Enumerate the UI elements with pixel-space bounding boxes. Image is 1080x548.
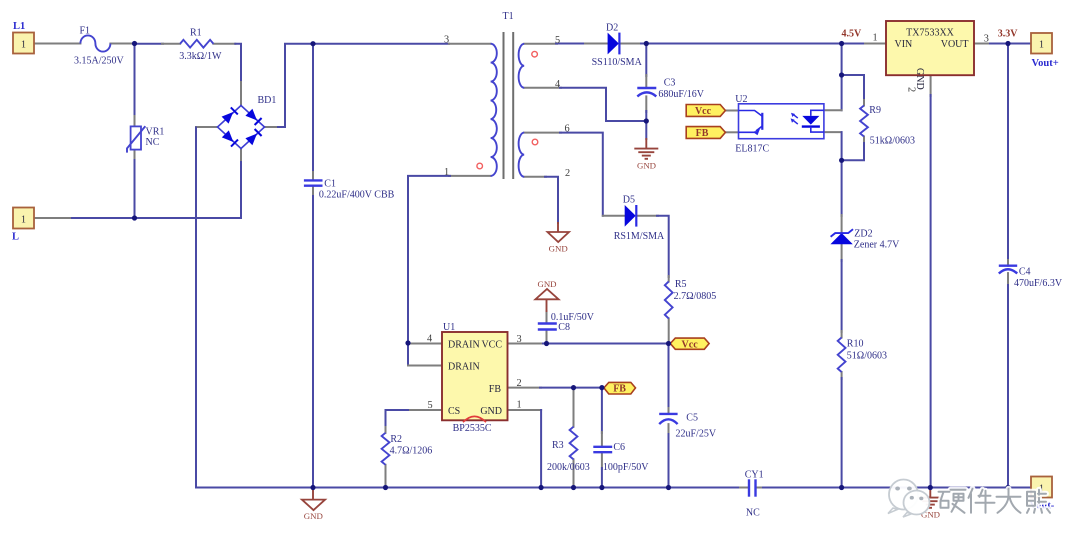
pin: C8 bottom lead	[546, 331, 548, 344]
zener diode ZD2	[830, 229, 853, 244]
diode D5 RS1M/SMA	[625, 205, 637, 227]
svg-text:Zener 4.7V: Zener 4.7V	[854, 240, 900, 251]
svg-text:L: L	[12, 232, 19, 243]
pin: R9 top lead	[863, 100, 865, 106]
pin: R10 bottom lead	[841, 372, 843, 379]
svg-text:680uF/16V: 680uF/16V	[658, 89, 704, 100]
transformer secondary winding (pins 6-2)	[519, 133, 525, 177]
watermark: WeChat logo bubbles	[888, 480, 930, 518]
svg-text:Vcc: Vcc	[695, 106, 712, 117]
diode D2 SS110/SMA	[608, 33, 620, 55]
pin: U2 emitter lead to FB flag	[726, 131, 739, 133]
svg-text:GND: GND	[637, 160, 656, 170]
junction: R2 on rail	[383, 485, 388, 490]
svg-text:R9: R9	[869, 105, 881, 116]
junction: C1 tap on DC+ rail	[310, 41, 315, 46]
wire: R10 to ground rail	[841, 378, 843, 488]
svg-text:1: 1	[873, 33, 878, 44]
wire: C3 bottom to secondary ground node	[645, 111, 647, 121]
svg-text:1: 1	[444, 167, 449, 178]
watermark: character xiong (bear)	[1027, 490, 1050, 513]
svg-text:3.3kΩ/1W: 3.3kΩ/1W	[179, 51, 222, 62]
pin: C3 bottom lead	[645, 96, 647, 112]
transformer core lines	[503, 32, 505, 179]
junction: C8 tap on VCC wire	[544, 341, 549, 346]
pin: D2 cathode lead	[619, 43, 642, 45]
polarity dot secondary top	[532, 51, 538, 57]
svg-text:R10: R10	[847, 339, 864, 350]
junction: Vcc flag node	[666, 341, 671, 346]
svg-text:2: 2	[565, 168, 570, 179]
svg-text:200k/0603: 200k/0603	[547, 462, 590, 473]
pin: TX7533XX VIN pin 1 lead	[865, 43, 886, 45]
wire: C5 to ground rail	[668, 434, 670, 488]
svg-text:D5: D5	[623, 194, 635, 205]
junction: GND symbol tap on rail	[310, 485, 315, 490]
pin: transformer pin 6 lead	[524, 132, 561, 134]
junction: F1/R1/VR1 node	[132, 41, 137, 46]
svg-text:0.22uF/400V CBB: 0.22uF/400V CBB	[319, 189, 395, 200]
wire: fuse F1 to junction A	[110, 43, 131, 45]
wire: zener node down to ZD2	[841, 160, 843, 216]
svg-text:T1: T1	[503, 11, 514, 22]
svg-text:C5: C5	[686, 412, 698, 423]
pin: R2 bottom lead	[385, 465, 387, 488]
ground (GND power port at transformer pin 2)	[548, 232, 570, 254]
svg-text:Vcc: Vcc	[682, 339, 699, 350]
junction: R3 tap on FB wire	[571, 385, 576, 390]
junction: R3 on rail	[571, 485, 576, 490]
wire: U1 GND down to ground rail	[540, 410, 542, 488]
wire: DC+ rail down to capacitor C1	[312, 44, 314, 173]
wire: secondary ground rail to Vout- port	[763, 487, 1031, 489]
pin: VR1 top lead	[134, 116, 136, 126]
svg-text:CS: CS	[448, 406, 460, 417]
pin: transformer pin 3 lead	[449, 43, 491, 45]
svg-text:FB: FB	[613, 384, 626, 395]
voltage regulator U3 TX7533XX body	[886, 21, 974, 92]
junction: opto/R9 bottom node	[839, 158, 844, 163]
svg-text:U2: U2	[735, 94, 747, 105]
U2 coupling arrows	[793, 114, 798, 118]
junction: C4 on rail	[1005, 485, 1010, 490]
pin: transformer pin 1 lead	[449, 175, 491, 177]
svg-text:4: 4	[427, 334, 432, 345]
wire: R9 bottom to zener node	[842, 143, 864, 160]
junction: TX GND / earth on rail	[928, 485, 933, 490]
wire: GND power port lead at pin 2	[557, 222, 559, 232]
svg-text:C6: C6	[613, 442, 625, 453]
svg-text:2: 2	[906, 87, 917, 92]
watermark: character jian (piece)	[969, 489, 995, 513]
pin: U2 LED anode lead	[824, 109, 842, 111]
pin: R10 top lead	[841, 331, 843, 338]
pin: R3 top lead	[573, 389, 575, 427]
wire: junction A down to varistor VR1	[134, 44, 136, 117]
capacitor CY1	[749, 479, 756, 496]
wire: branch to resistor R9	[842, 75, 864, 101]
wire: junction A to resistor R1	[133, 43, 163, 45]
svg-text:EL817C: EL817C	[735, 144, 769, 155]
pin: C8 top lead	[546, 311, 548, 324]
wire: LED cathode down to zener node	[841, 132, 843, 161]
power flag Vcc at U1 pin 3	[670, 338, 709, 350]
junction: C3 tap on 4.5V wire	[644, 41, 649, 46]
svg-text:3: 3	[984, 34, 989, 45]
svg-text:6: 6	[565, 124, 570, 135]
svg-text:2.7Ω/0805: 2.7Ω/0805	[674, 291, 717, 302]
svg-text:R5: R5	[675, 279, 687, 290]
junction: 4.5V branch node	[839, 41, 844, 46]
ground (GND power port above C8, triangle up)	[535, 279, 558, 299]
pin: CY1 left lead	[740, 487, 749, 489]
transformer secondary winding (pins 5-4)	[519, 44, 525, 88]
wire: ZD2 down to resistor R10	[841, 260, 843, 332]
polarity dot secondary bottom	[532, 139, 538, 145]
junction: 3.3V / C4 node	[1005, 41, 1010, 46]
pin: ZD2 anode lead	[841, 244, 843, 261]
svg-text:GND: GND	[549, 244, 568, 254]
junction: transformer pin1 / U1 DRAIN node	[405, 340, 410, 345]
pin: U2 LED cathode lead	[824, 131, 841, 133]
svg-text:U1: U1	[443, 322, 455, 333]
wire: U1 FB to FB flag	[540, 387, 604, 389]
pin: U1 VCC pin 3 lead	[508, 343, 545, 345]
junction: opto/R9 top node	[839, 72, 844, 77]
bridge rectifier BD1	[218, 106, 265, 149]
svg-text:R2: R2	[390, 434, 402, 445]
svg-text:VIN: VIN	[895, 39, 913, 50]
wire: BD1 bottom to L neutral wire	[68, 162, 241, 218]
wire: BD1 left vertex down to ground rail	[195, 128, 197, 488]
pin: ZD2 cathode lead	[841, 215, 843, 233]
pin: transformer pin 5 lead	[524, 43, 557, 45]
svg-text:51kΩ/0603: 51kΩ/0603	[870, 136, 915, 147]
wire: GND power port lead above C8	[546, 299, 548, 312]
wire: pin 6 down to diode D5	[560, 133, 603, 216]
resistor R10	[838, 338, 846, 373]
junction: R10 on rail	[839, 485, 844, 490]
svg-text:22uF/25V: 22uF/25V	[676, 429, 717, 440]
pin: BD1 bottom lead	[240, 149, 242, 164]
svg-text:TX7533XX: TX7533XX	[906, 28, 955, 39]
wire: U1 VCC to Vcc flag junction	[543, 343, 670, 345]
capacitor C3 (polarized)	[637, 88, 656, 96]
pin: R9 bottom lead	[863, 137, 865, 145]
port L1	[13, 33, 34, 54]
wire: D2 cathode to TX7533XX VIN (4.5V net)	[641, 43, 866, 45]
svg-text:3: 3	[444, 35, 449, 46]
wire: VR1 bottom to L neutral wire	[134, 160, 136, 218]
junction: C3 bottom / pin4 ground node	[644, 118, 649, 123]
fuse F1	[80, 35, 110, 51]
wire: 3.3V net down to capacitor C4	[1007, 44, 1009, 262]
svg-text:F1: F1	[80, 25, 91, 36]
capacitor C1	[304, 180, 323, 185]
pin: R1 right lead	[213, 43, 235, 45]
capacitor C4 (polarized)	[999, 266, 1017, 274]
pin: BD1 left lead	[196, 126, 218, 128]
svg-text:VOUT: VOUT	[941, 39, 969, 50]
port L	[13, 208, 34, 229]
op-amp U1 BP2535C body	[442, 332, 508, 422]
wire: TX GND down to ground rail	[930, 95, 932, 488]
resistor R3	[570, 427, 578, 460]
svg-text:R3: R3	[552, 440, 564, 451]
pin: D2 anode lead (short)	[585, 43, 608, 45]
wire: R1 to BD1 top	[235, 44, 241, 83]
wire: BD1 right vertex up to DC+ top rail	[278, 44, 449, 127]
wire: Vcc node down to capacitor C5	[668, 344, 670, 410]
pin: C6 bottom lead	[601, 452, 603, 469]
svg-text:1: 1	[517, 400, 522, 411]
svg-text:1: 1	[21, 39, 26, 50]
pin: C5 bottom lead	[668, 424, 670, 435]
pin: R5 bottom lead	[668, 319, 670, 344]
power flag FB at U1 pin 2	[604, 382, 636, 394]
pin: CY1 right lead	[756, 487, 765, 489]
wire: C1 down to primary ground rail	[312, 196, 314, 488]
junction: VR1 bottom on L wire	[132, 215, 137, 220]
resistor R5	[665, 282, 673, 319]
transformer primary winding (pins 3-1)	[491, 44, 497, 176]
svg-text:1: 1	[21, 214, 26, 225]
optocoupler U2 EL817C	[739, 104, 824, 139]
svg-text:51Ω/0603: 51Ω/0603	[847, 350, 887, 361]
pin: R5 top lead	[668, 276, 670, 282]
svg-text:FB: FB	[489, 384, 502, 395]
svg-text:5: 5	[428, 400, 433, 411]
svg-text:GND: GND	[480, 406, 502, 417]
power flag Vcc at U2	[686, 105, 725, 118]
wire: L1 port to fuse F1	[34, 43, 80, 45]
pin: C4 top lead	[1007, 260, 1009, 266]
watermark: character ying (hard)	[939, 490, 966, 513]
svg-text:3.3V: 3.3V	[998, 28, 1019, 39]
varistor VR1	[127, 126, 145, 152]
junction: C5 on rail	[666, 485, 671, 490]
wire: 4.5V net down to capacitor C3	[645, 44, 647, 77]
junction: C6 / FB flag node	[599, 385, 604, 390]
svg-text:RS1M/SMA: RS1M/SMA	[614, 231, 665, 242]
port Vout+	[1031, 33, 1052, 54]
svg-text:GND: GND	[537, 279, 556, 289]
svg-text:R1: R1	[190, 28, 202, 39]
wire: C4 down to ground rail	[1007, 285, 1009, 488]
svg-text:GND: GND	[304, 511, 323, 521]
ground (GND earth below C3)	[634, 138, 658, 170]
wire: secondary ground node to GND earth symbol	[645, 121, 647, 139]
pin: U1 DRAIN pin 4 lead	[408, 343, 442, 345]
pin: BD1 top lead	[240, 82, 242, 106]
svg-text:ZD2: ZD2	[854, 229, 872, 240]
svg-text:BP2535C: BP2535C	[453, 423, 492, 434]
resistor R9	[860, 106, 868, 137]
junction: U1 GND on rail	[539, 485, 544, 490]
pin: BD1 right lead	[265, 126, 280, 128]
svg-text:1: 1	[1039, 40, 1044, 51]
pin: C3 top lead	[645, 75, 647, 88]
wire: GND earth lead at rail	[929, 488, 931, 498]
svg-text:SS110/SMA: SS110/SMA	[592, 57, 643, 68]
resistor R1	[180, 40, 213, 48]
svg-text:VCC: VCC	[481, 340, 502, 351]
svg-text:L1: L1	[13, 21, 25, 32]
svg-text:D2: D2	[606, 22, 618, 33]
svg-text:C3: C3	[664, 78, 676, 89]
svg-text:470uF/6.3V: 470uF/6.3V	[1014, 278, 1063, 289]
resistor R2	[382, 433, 390, 465]
svg-text:NC: NC	[146, 137, 160, 148]
svg-text:C8: C8	[558, 322, 570, 333]
pin: R2 top lead	[385, 427, 387, 433]
pin: U1 GND pin 1 lead	[508, 409, 542, 411]
svg-text:4.7Ω/1206: 4.7Ω/1206	[390, 446, 433, 457]
pin: C6 top lead	[601, 432, 603, 447]
pin: C5 top lead	[668, 408, 670, 414]
pin: transformer pin 4 lead	[524, 87, 561, 89]
svg-text:DRAIN: DRAIN	[448, 361, 480, 372]
svg-text:VR1: VR1	[146, 127, 165, 138]
wire: pin 5 to diode D2	[556, 43, 608, 45]
svg-text:NC: NC	[746, 508, 760, 519]
power flag FB at U2	[686, 127, 725, 140]
capacitor C8	[538, 324, 557, 330]
pin: D5 cathode lead	[636, 215, 658, 217]
svg-text:C4: C4	[1019, 266, 1031, 277]
svg-text:4.5V: 4.5V	[842, 28, 863, 39]
pin: U1 FB pin 2 lead	[508, 387, 542, 389]
polarity dot primary	[477, 163, 483, 169]
wire: pin 4 to secondary ground node	[560, 88, 646, 121]
wire: pin 2 to GND power port	[545, 177, 558, 223]
pin: transformer pin 2 lead	[524, 176, 546, 178]
svg-text:C1: C1	[324, 179, 336, 190]
U2 LED	[811, 110, 824, 116]
wire: U1 CS to resistor R2	[386, 410, 409, 428]
pin: C1 top lead	[312, 172, 314, 180]
svg-text:Vout+: Vout+	[1032, 58, 1059, 69]
pin: C4 bottom lead	[1007, 273, 1009, 286]
pin: R3 bottom lead	[573, 459, 575, 487]
port Vout-	[1031, 477, 1052, 498]
U2 phototransistor	[739, 111, 762, 117]
wire: primary ground rail (left section)	[196, 487, 741, 489]
svg-text:3: 3	[517, 334, 522, 345]
pin: U1 DRAIN second lead	[408, 365, 442, 367]
svg-text:BD1: BD1	[258, 95, 277, 106]
ground (primary GND triangle at rail)	[302, 489, 325, 521]
svg-text:3.15A/250V: 3.15A/250V	[74, 55, 125, 66]
pin: TX7533XX VOUT pin 3 lead	[974, 43, 991, 45]
svg-text:4: 4	[555, 79, 560, 90]
junction: C6 on rail	[599, 485, 604, 490]
wire: FB net down to capacitor C6	[601, 388, 603, 433]
pin: TX7533XX GND pin 2 lead	[930, 75, 932, 96]
pin: R1 left lead	[162, 43, 180, 45]
ground (GND earth at secondary rail)	[918, 498, 942, 520]
svg-text:FB: FB	[696, 128, 709, 139]
pin: VR1 bottom lead	[134, 150, 136, 161]
wire: 3.3V net to Vout+ port	[990, 43, 1031, 45]
svg-text:DRAIN: DRAIN	[448, 340, 480, 351]
capacitor C6	[593, 447, 612, 452]
svg-text:2: 2	[517, 378, 522, 389]
pin: U2 collector lead to Vcc flag	[725, 110, 738, 112]
wire: D5 cathode to resistor R5	[657, 216, 669, 277]
svg-text:CY1: CY1	[745, 469, 764, 480]
wire: transformer pin 1 down to U1 DRAIN	[408, 176, 450, 366]
pin: D5 anode lead	[603, 215, 625, 217]
wire: C6 to ground rail	[601, 468, 603, 488]
pin: U1 CS pin 5 lead	[407, 409, 442, 411]
capacitor C5 (polarized)	[659, 414, 677, 424]
svg-text:100pF/50V: 100pF/50V	[603, 462, 649, 473]
watermark: character da (big)	[997, 489, 1021, 513]
svg-text:5: 5	[555, 35, 560, 46]
wire: 4.5V net down to opto/R9 branch	[841, 44, 843, 111]
transformer T1	[477, 32, 538, 179]
pin: C1 bottom lead	[312, 186, 314, 197]
